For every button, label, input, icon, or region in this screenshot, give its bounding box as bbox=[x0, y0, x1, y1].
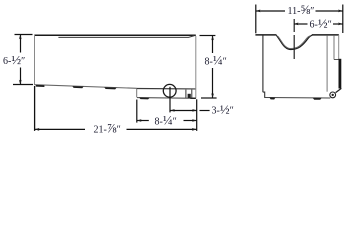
dim 21-7/8 left arrowhead bbox=[35, 128, 40, 131]
dim 11-5/8 right arrowhead bbox=[338, 10, 343, 13]
dim 6-1/2 right view line right segment bbox=[333, 23, 343, 25]
drain plug circle (side view) bbox=[163, 84, 176, 97]
end view: left wall bbox=[262, 36, 264, 93]
dim 6-1/2 up arrowhead bbox=[19, 35, 22, 40]
svg-text:6-½″: 6-½″ bbox=[3, 52, 25, 67]
end view: inner wall right bbox=[326, 35, 328, 91]
end view: drain plug center dot bbox=[332, 94, 334, 96]
side view bottom shallow edge bbox=[35, 85, 137, 89]
svg-text:21-⅞″: 21-⅞″ bbox=[94, 121, 121, 136]
end view: centerline bbox=[293, 19, 295, 62]
dim 6-1/2 right view left arrowhead bbox=[294, 23, 299, 26]
dim 8-1/4 horiz right arrowhead bbox=[192, 119, 197, 122]
end view: foot bump left bbox=[269, 97, 275, 99]
svg-text:6-½″: 6-½″ bbox=[310, 15, 332, 30]
dim 8-1/4 vertical line lower segment bbox=[212, 68, 214, 98]
dim 11-5/8 line left segment bbox=[256, 10, 285, 12]
dim 8-1/4 horiz left arrowhead bbox=[137, 119, 142, 122]
dim 11-5/8 left arrowhead bbox=[256, 10, 261, 13]
dim 6-1/2 right view line left segment bbox=[294, 23, 308, 25]
end view: bottom-left foot jog bbox=[263, 92, 265, 97]
plug boss dark bottom bbox=[188, 94, 191, 98]
dim 8-1/4 vertical: bottom extension tick bbox=[201, 97, 217, 99]
end view: outer right edge lower (thick) bbox=[339, 59, 342, 89]
end view: dip inner curve bbox=[278, 36, 310, 49]
end view: foot bump right bbox=[313, 98, 322, 100]
svg-text:8-¼″: 8-¼″ bbox=[205, 53, 227, 68]
side view top edge bbox=[34, 34, 196, 36]
dim 3-1/2 leader to text bbox=[200, 110, 210, 112]
svg-text:11-⅝″: 11-⅝″ bbox=[288, 2, 315, 17]
foot bump on sump bottom bbox=[139, 98, 150, 100]
dim 21-7/8 line right segment bbox=[127, 128, 197, 130]
side view right edge bbox=[195, 36, 197, 98]
dim 3-1/2 left arrowhead bbox=[170, 109, 175, 112]
extension line through circle center down to 3-1/2 dim bbox=[169, 87, 171, 113]
dim 21-7/8: left extension line bbox=[34, 86, 36, 131]
dim 8-1/4 vertical line upper segment bbox=[212, 36, 214, 53]
svg-text:8-¼″: 8-¼″ bbox=[155, 112, 177, 127]
dim 8-1/4 down arrowhead bbox=[211, 93, 214, 98]
end view: step from edge down to plug bbox=[336, 88, 342, 92]
lower continuation line through sump bbox=[137, 88, 196, 90]
foot bump mid-left on bottom edge bbox=[72, 86, 83, 88]
dim 3-1/2 line bbox=[170, 110, 196, 112]
dim 11-5/8 line right segment bbox=[316, 10, 343, 12]
dim 8-1/4 horizontal line right segment bbox=[184, 120, 197, 122]
dim 6-1/2 right view right arrowhead bbox=[338, 23, 343, 26]
dim 21-7/8 right arrowhead bbox=[192, 128, 197, 131]
dim 11-5/8: left extension bbox=[255, 5, 257, 34]
dim 6-1/2 vertical line upper segment bbox=[20, 35, 22, 53]
dim 8-1/4 vertical: top extension tick bbox=[200, 35, 216, 37]
dim 8-1/4 horizontal line left segment bbox=[137, 120, 149, 122]
dim 8-1/4 horizontal: left extension line bbox=[136, 100, 138, 123]
side view inner rim line bbox=[58, 36, 194, 38]
end view: flange top left bbox=[255, 34, 276, 36]
end view: notch vertical bbox=[333, 35, 335, 59]
dim 6-1/2 vertical line lower segment bbox=[20, 68, 22, 85]
end view: flange top right bbox=[312, 34, 339, 36]
end view: notch horizontal bbox=[334, 59, 339, 61]
dim 6-1/2 bottom extension tick bbox=[13, 84, 33, 86]
dim 21-7/8 line left segment bbox=[35, 128, 85, 130]
svg-text:3-½″: 3-½″ bbox=[212, 102, 234, 117]
dim 11-5/8: right extension bbox=[342, 5, 344, 34]
side view left edge bbox=[34, 35, 36, 85]
dim 6-1/2 down arrowhead bbox=[19, 80, 22, 85]
dim 8-1/4 up arrowhead bbox=[211, 36, 214, 41]
foot bump near bottom-left corner bbox=[36, 85, 45, 87]
end view: bottom edge bbox=[264, 97, 330, 100]
end view: dip outer curve bbox=[276, 35, 312, 49]
right extension line shared (sump right edge down) bbox=[196, 99, 198, 131]
plug boss right wall bbox=[191, 90, 193, 98]
plug boss left wall bbox=[185, 90, 187, 98]
end view: drain plug circle bbox=[330, 92, 336, 98]
end view: outer right edge upper (thin) bbox=[338, 35, 340, 59]
foot bump mid on bottom edge bbox=[104, 87, 116, 89]
sump bottom right dark corner segment bbox=[190, 97, 196, 99]
sump step down bbox=[136, 88, 138, 97]
dim 6-1/2 top extension tick bbox=[15, 34, 33, 36]
sump bottom edge bbox=[137, 97, 196, 100]
dim 3-1/2 right arrowhead bbox=[192, 109, 197, 112]
